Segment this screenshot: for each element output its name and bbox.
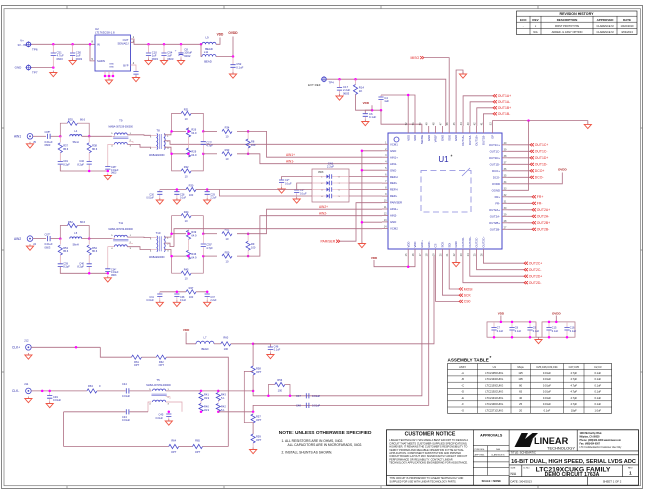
svg-text:LINEAR: LINEAR: [534, 436, 569, 446]
svg-text:0.1uF: 0.1uF: [594, 371, 601, 375]
svg-text:R41: R41: [204, 392, 209, 396]
svg-text:R32: R32: [184, 165, 189, 169]
svg-text:N/A: N/A: [496, 448, 500, 451]
resistor R53: [59, 239, 61, 245]
node FR+: [532, 195, 536, 198]
wire OUT1B+: [477, 108, 493, 126]
svg-text:LT1763CS8-1.8: LT1763CS8-1.8: [95, 31, 115, 35]
pin 28 OUT2B+: [502, 222, 508, 224]
pin 11 AIN2+: [382, 208, 388, 210]
wire T9 pin4: [108, 144, 115, 166]
wire REFH to C2: [282, 177, 312, 180]
capacitor C3: [294, 190, 299, 193]
svg-text:0.01uF: 0.01uF: [146, 299, 154, 302]
resistor R43: [217, 391, 219, 392]
resistor R63: [87, 389, 97, 393]
pin 2 GND: [382, 150, 388, 152]
wire CLK+ row: [31, 346, 100, 348]
svg-text:OUT2D-: OUT2D-: [529, 281, 542, 285]
svg-text:100: 100: [251, 245, 256, 249]
svg-text:4.7pF: 4.7pF: [206, 246, 213, 250]
svg-text:SDO: SDO: [447, 134, 451, 141]
svg-text:OPT: OPT: [195, 450, 201, 454]
ground: [267, 353, 274, 359]
resistor R9: [247, 234, 249, 242]
svg-text:DCO-: DCO-: [493, 175, 500, 179]
wire FR+: [508, 196, 532, 198]
svg-text:T11: T11: [118, 221, 123, 225]
svg-text:CLK-: CLK-: [12, 389, 19, 393]
svg-text:0.01uF: 0.01uF: [543, 402, 551, 406]
svg-text:SEN/ADJ: SEN/ADJ: [118, 42, 130, 46]
node OUT1D-: [530, 163, 534, 166]
svg-text:R9: R9: [251, 242, 255, 246]
pin 6 REFH: [382, 176, 388, 178]
svg-text:GND: GND: [390, 168, 396, 172]
wire R58 low: [252, 375, 254, 391]
wire R14 to VDD node: [356, 95, 382, 111]
svg-text:4.7pF: 4.7pF: [570, 396, 577, 400]
wire input: [33, 238, 46, 240]
svg-text:Fax: (408)434-0507: Fax: (408)434-0507: [580, 443, 601, 446]
pin 23 OUT2D-: [462, 249, 464, 256]
capacitor C38: [176, 292, 178, 294]
wire R57-R59: [252, 423, 254, 434]
wire OVDD stub: [555, 316, 557, 322]
svg-text:REFH: REFH: [390, 175, 398, 179]
svg-text:R65: R65: [195, 439, 200, 443]
resistor R51: [203, 233, 217, 235]
svg-text:-: -: [523, 25, 524, 28]
pin 49 GND: [428, 126, 430, 133]
svg-text:SHEET 1 OF 2: SHEET 1 OF 2: [603, 480, 622, 484]
svg-text:L9: L9: [205, 36, 209, 40]
node OUT2D-: [524, 281, 528, 284]
svg-text:C44: C44: [122, 382, 127, 386]
svg-text:R56: R56: [277, 378, 282, 382]
resistor R30: [160, 189, 186, 191]
svg-text:100: 100: [189, 295, 194, 299]
wire to T9: [82, 238, 112, 240]
capacitor C37: [206, 292, 208, 294]
resistor R8: [247, 131, 249, 139]
svg-text:4.7pF: 4.7pF: [206, 144, 213, 148]
svg-text:LTC Confidential-For Customer: LTC Confidential-For Customer Use Only: [580, 446, 623, 449]
pin 7 REFL: [382, 182, 388, 184]
connector J4: [27, 236, 33, 242]
wire R58/R57 bypass loop: [244, 371, 253, 422]
svg-text:C48: C48: [296, 404, 301, 408]
pin 3 AIN1+: [382, 156, 388, 158]
svg-text:GND: GND: [390, 220, 396, 224]
svg-text:C40: C40: [79, 261, 84, 265]
ground: [362, 120, 369, 126]
svg-text:C32: C32: [79, 159, 84, 163]
svg-text:FIRST PROTOTYPE: FIRST PROTOTYPE: [555, 24, 579, 28]
resistor R35: [60, 123, 67, 136]
svg-text:BEAD: BEAD: [204, 59, 212, 63]
svg-text:R34: R34: [225, 125, 230, 129]
svg-text:C2,C3: C2,C3: [594, 365, 602, 369]
ground: [336, 94, 343, 100]
wire T8 centre tap (VCM): [164, 141, 382, 145]
svg-text:0603: 0603: [45, 143, 51, 147]
svg-text:4.7pF: 4.7pF: [570, 402, 577, 406]
svg-text:0.01uF: 0.01uF: [543, 377, 551, 381]
svg-text:0.1uF: 0.1uF: [533, 330, 540, 333]
pin 43 OUT1A-: [469, 126, 471, 133]
wire C4 to VDD pin 51: [381, 95, 415, 126]
svg-text:0.1uF: 0.1uF: [594, 377, 601, 381]
pin 8 REFH: [382, 189, 388, 191]
T5 pin2 stub: [166, 397, 170, 400]
resistor R34: [203, 130, 217, 132]
svg-text:0508: 0508: [318, 171, 324, 174]
wire T9 to T8 top: [127, 236, 151, 239]
wire REFL run: [220, 190, 313, 197]
capacitor C29: [206, 190, 208, 192]
svg-text:0.01uF: 0.01uF: [122, 418, 130, 422]
wire to node: [51, 238, 61, 240]
node OUT2A+: [532, 208, 536, 211]
svg-text:SCK: SCK: [441, 242, 445, 248]
svg-text:OGND: OGND: [492, 188, 500, 192]
wire OUT2D-: [463, 256, 524, 283]
svg-text:0.1uF: 0.1uF: [552, 330, 559, 333]
pin 47 GND: [441, 126, 443, 133]
svg-text:10pF: 10pF: [571, 408, 577, 412]
node DCO+: [530, 169, 534, 172]
pin 5 GND: [382, 169, 388, 171]
svg-text:OUT2D-: OUT2D-: [461, 237, 465, 247]
svg-text:OPT: OPT: [159, 363, 165, 367]
ground: [26, 244, 33, 250]
svg-text:R46: R46: [191, 252, 196, 256]
svg-text:R64: R64: [171, 439, 176, 443]
svg-text:R59: R59: [256, 435, 261, 439]
svg-text:TP6: TP6: [32, 48, 38, 52]
capacitor C27: [202, 131, 204, 141]
capacitor C50: [72, 44, 74, 52]
svg-text:R60: R60: [223, 336, 228, 340]
svg-text:GND: GND: [454, 135, 458, 141]
svg-text:86.6: 86.6: [63, 147, 69, 151]
svg-text:VCM1: VCM1: [390, 142, 398, 146]
wire T8 centre tap (VCM): [164, 243, 174, 247]
wire to T9: [82, 135, 112, 137]
node FR-: [532, 202, 536, 205]
svg-text:OVDD: OVDD: [558, 168, 568, 172]
svg-text:R44: R44: [184, 210, 189, 214]
pin 45 GND: [455, 126, 457, 133]
svg-text:R38: R38: [92, 144, 97, 148]
svg-text:VDD: VDD: [406, 242, 410, 248]
svg-text:OUT2C+: OUT2C+: [482, 236, 486, 247]
svg-text:GND: GND: [109, 64, 114, 66]
svg-text:DCO+: DCO+: [492, 169, 500, 173]
wire FR-: [508, 202, 532, 204]
svg-text:0.1uF: 0.1uF: [300, 191, 307, 195]
title text: [509, 455, 638, 485]
wire CS0: [436, 256, 460, 301]
svg-text:VDD: VDD: [371, 256, 378, 260]
svg-text:OUT2A-: OUT2A-: [490, 214, 500, 218]
capacitor C05: [48, 134, 51, 139]
svg-text:OUT1A+: OUT1A+: [461, 134, 465, 145]
svg-text:OUT2B+: OUT2B+: [489, 221, 500, 225]
capacitor C49: [49, 391, 51, 395]
wire VDD to pins 15,16: [374, 256, 415, 267]
svg-text:R57: R57: [256, 415, 261, 419]
capacitor C53: [133, 72, 138, 75]
pin 16 VDD: [414, 249, 416, 256]
svg-text:1K: 1K: [359, 89, 363, 93]
pin 29 OUT2A-: [502, 215, 508, 217]
wire SCK: [442, 256, 459, 295]
capacitor CN1 element 4: [324, 195, 337, 197]
wire OUT1B-: [483, 114, 493, 126]
capacitor C8: [511, 323, 513, 337]
svg-text:J11: J11: [24, 382, 29, 386]
wire AIN2- to pin 12: [237, 216, 382, 256]
wire R56 tap: [268, 385, 274, 396]
svg-text:1uF: 1uF: [384, 99, 389, 103]
test point TP7: [25, 64, 31, 70]
svg-text:DEMO CIRCUIT 1763A: DEMO CIRCUIT 1763A: [545, 472, 600, 478]
svg-text:FR-: FR-: [495, 201, 500, 205]
resistor R45: [172, 256, 182, 273]
svg-text:6032: 6032: [184, 54, 191, 58]
ground: [229, 72, 236, 78]
svg-text:100: 100: [224, 347, 229, 351]
capacitor C44: [126, 388, 129, 393]
node OUT1A+: [493, 94, 497, 97]
svg-text:EP: EP: [491, 135, 495, 139]
svg-text:0.1uF: 0.1uF: [515, 330, 522, 333]
svg-text:OUT1B+: OUT1B+: [498, 106, 511, 110]
svg-text:SCALE = NONE: SCALE = NONE: [482, 479, 502, 483]
svg-text:SCK: SCK: [464, 294, 472, 298]
svg-text:OUT2C+: OUT2C+: [529, 262, 542, 266]
svg-text:0.1uF: 0.1uF: [594, 384, 601, 388]
svg-text:8.2pF: 8.2pF: [77, 265, 84, 269]
pin 50 SENSE: [421, 126, 423, 133]
svg-text:CLARENCE M: CLARENCE M: [596, 30, 613, 34]
svg-text:2.2uF: 2.2uF: [327, 165, 334, 169]
svg-text:AIN1: AIN1: [14, 135, 21, 139]
svg-text:R33: R33: [225, 148, 230, 152]
svg-text:J5: J5: [33, 140, 36, 144]
svg-text:10/22/2010: 10/22/2010: [621, 24, 635, 28]
wire left loop down: [63, 412, 65, 447]
resistor R14: [353, 85, 357, 95]
capacitor CN1 element 2: [324, 182, 337, 184]
svg-text:APPROVED: APPROVED: [597, 18, 615, 22]
capacitor C6: [365, 110, 372, 113]
op-amp U1 (ADC LTC219x): [388, 133, 502, 249]
svg-text:-B: -B: [461, 377, 464, 381]
svg-text:LTC2191CUKG: LTC2191CUKG: [485, 396, 503, 400]
capacitor C35: [202, 234, 204, 244]
pin 35 DCO-: [502, 176, 508, 178]
resistor R26: [188, 127, 190, 131]
svg-text:OUT1D-: OUT1D-: [535, 163, 548, 167]
capacitor C30: [159, 190, 161, 192]
ground: [104, 174, 111, 180]
capacitor C51: [52, 44, 54, 52]
svg-text:OUT1C-: OUT1C-: [490, 149, 500, 153]
pin 42 OUT1B+: [476, 126, 478, 133]
svg-text:OPT: OPT: [256, 438, 262, 442]
capacitor C91: [58, 162, 63, 165]
resistor R41: [200, 391, 202, 392]
resistor R59 OPT: [251, 434, 255, 443]
svg-text:4.7pF: 4.7pF: [570, 377, 577, 381]
svg-text:OUT1D+: OUT1D+: [489, 156, 500, 160]
svg-text:0.01uF: 0.01uF: [312, 394, 320, 398]
wire T9 to T8 bottom: [127, 247, 151, 250]
ground: [105, 78, 112, 84]
wire ADC left GND bus: [361, 151, 363, 243]
pin 40 OUT1C+: [502, 144, 508, 146]
svg-text:OUT: OUT: [123, 38, 129, 42]
wire R64-R65: [179, 446, 193, 448]
wire R63-C44: [97, 390, 126, 392]
svg-text:N/A: N/A: [511, 472, 517, 476]
svg-text:PCB DES.: PCB DES.: [475, 449, 486, 451]
pin 37 OUT1D-: [502, 163, 508, 165]
wire DCO+: [508, 170, 530, 172]
svg-text:VDD: VDD: [183, 328, 190, 332]
svg-text:VDD: VDD: [406, 135, 410, 141]
svg-text:TECHNOLOGY: TECHNOLOGY: [547, 446, 575, 451]
wire BYP: [131, 65, 137, 71]
svg-text:64.9: 64.9: [191, 233, 197, 237]
svg-text:R29: R29: [191, 150, 196, 154]
pin 19 CS: [435, 249, 437, 256]
svg-text:-A: -A: [461, 371, 464, 375]
svg-text:-D: -D: [461, 390, 464, 394]
svg-text:PAR/SER: PAR/SER: [321, 240, 336, 244]
capacitor C45: [168, 412, 170, 414]
wire VDD to L7: [186, 332, 196, 344]
ground: [104, 276, 111, 282]
capacitor network CN1: [312, 169, 349, 202]
resistor R42: [216, 404, 220, 412]
svg-text:0.01uF: 0.01uF: [543, 390, 551, 394]
svg-text:ENC-: ENC-: [427, 241, 431, 248]
wire T8 out bottom: [164, 147, 186, 154]
wire T8 out top: [164, 234, 186, 237]
wire OVDD pin 34: [508, 173, 562, 184]
svg-text:OUT2C-: OUT2C-: [475, 237, 479, 247]
svg-text:16-BIT DUAL, HIGH SPEED, SERIA: 16-BIT DUAL, HIGH SPEED, SERIAL LVDS ADC: [511, 459, 636, 465]
wire CN1 to REF pin: [349, 195, 382, 197]
svg-text:WABAES0060: WABAES0060: [149, 256, 165, 259]
svg-text:TP7: TP7: [32, 71, 38, 75]
svg-text:R50: R50: [225, 250, 230, 254]
svg-text:64.9: 64.9: [191, 255, 197, 259]
node OUT1B+: [493, 106, 497, 109]
capacitor C15: [548, 323, 550, 337]
svg-text:DATE: DATE: [623, 18, 631, 22]
svg-text:MABA-007159-000000: MABA-007159-000000: [146, 384, 171, 387]
svg-text:OUT1B-: OUT1B-: [482, 135, 486, 145]
svg-text:C07*: C07*: [45, 232, 51, 236]
wire TP7 to ground rail: [31, 67, 53, 69]
svg-text:0.1uF: 0.1uF: [594, 390, 601, 394]
connector J11: [26, 388, 32, 394]
svg-text:0.01uF: 0.01uF: [543, 371, 551, 375]
resistor R50: [203, 255, 217, 257]
node OUT2C-: [524, 268, 528, 271]
svg-text:CS0: CS0: [464, 300, 471, 304]
svg-text:R39: R39: [191, 230, 196, 234]
wire to VDD: [216, 38, 220, 45]
svg-text:C45: C45: [159, 413, 164, 417]
svg-text:86.6: 86.6: [80, 220, 86, 224]
pin 53 EP: [492, 126, 494, 133]
wire OUT rail: [131, 39, 202, 44]
svg-text:MABA-007159-000000: MABA-007159-000000: [109, 228, 134, 231]
wire R60 out: [231, 343, 253, 345]
svg-text:0.1uF: 0.1uF: [570, 330, 577, 333]
svg-text:0.1uF: 0.1uF: [369, 115, 376, 119]
node MOSI: [459, 288, 463, 291]
svg-text:0.1uF: 0.1uF: [180, 197, 187, 200]
svg-text:EXT REF: EXT REF: [308, 83, 321, 87]
svg-text:0603: 0603: [57, 57, 64, 61]
ground: [535, 338, 542, 344]
ground: [358, 242, 365, 248]
node OUT2A-: [532, 215, 536, 218]
ground: [584, 122, 591, 128]
ground: [156, 198, 163, 204]
ground: [204, 300, 211, 306]
svg-text:AIN1+: AIN1+: [286, 153, 295, 157]
ground: [204, 198, 211, 204]
capacitor C31: [159, 292, 161, 294]
capacitor C7: [493, 323, 495, 337]
svg-text:0.01uF: 0.01uF: [543, 384, 551, 388]
wire CLK- row: [31, 390, 87, 392]
resistor R33: [203, 153, 217, 155]
svg-text:C05*: C05*: [45, 130, 51, 134]
node OUT2B+: [532, 221, 536, 224]
svg-text:0.1uF: 0.1uF: [594, 396, 601, 400]
test point TP6: [25, 41, 31, 47]
svg-text:0.1uF: 0.1uF: [594, 402, 601, 406]
resistor R39: [188, 229, 190, 233]
svg-text:OUT1B-: OUT1B-: [498, 112, 510, 116]
svg-text:0.01uF: 0.01uF: [146, 197, 154, 200]
connector J12: [26, 345, 32, 351]
capacitor C9: [529, 323, 531, 337]
ground: [145, 59, 152, 65]
svg-text:C39: C39: [63, 261, 68, 265]
svg-text:0.01uF: 0.01uF: [543, 396, 551, 400]
svg-text:VDD: VDD: [413, 135, 417, 141]
svg-text:AIN1+: AIN1+: [390, 155, 398, 159]
svg-text:OPT: OPT: [134, 363, 140, 367]
wire GND pin stub: [362, 169, 382, 171]
capacitor C39: [58, 264, 63, 267]
wire MOSI: [449, 256, 459, 289]
svg-text:VDD: VDD: [363, 101, 370, 105]
wire U2 GND pins: [105, 71, 113, 76]
svg-text:86.6: 86.6: [92, 249, 98, 253]
svg-text:LTC2192CUKG: LTC2192CUKG: [485, 390, 503, 394]
